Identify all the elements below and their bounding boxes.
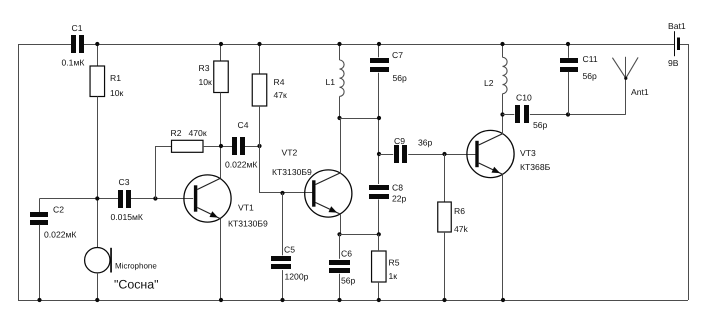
- svg-text:C4: C4: [238, 120, 249, 130]
- svg-text:9В: 9В: [668, 58, 679, 68]
- svg-text:0.022мК: 0.022мК: [44, 230, 76, 240]
- svg-text:R5: R5: [389, 258, 400, 268]
- svg-text:56p: 56p: [533, 120, 548, 130]
- svg-text:C7: C7: [392, 50, 403, 60]
- svg-text:Ant1: Ant1: [631, 87, 649, 97]
- svg-text:47k: 47k: [454, 224, 469, 234]
- svg-text:47к: 47к: [274, 90, 288, 100]
- svg-text:56p: 56p: [393, 73, 408, 83]
- svg-text:R1: R1: [110, 73, 121, 83]
- svg-text:VT1: VT1: [238, 203, 254, 213]
- svg-text:Bat1: Bat1: [668, 21, 686, 31]
- svg-text:C6: C6: [341, 249, 352, 259]
- svg-text:C3: C3: [119, 177, 130, 187]
- svg-text:"Сосна": "Сосна": [114, 278, 159, 292]
- svg-text:C1: C1: [72, 23, 83, 33]
- svg-text:C9: C9: [394, 136, 405, 146]
- svg-text:0.015мК: 0.015мК: [111, 212, 143, 222]
- svg-text:C2: C2: [53, 205, 64, 215]
- svg-text:C8: C8: [392, 183, 403, 193]
- svg-text:56p: 56p: [583, 71, 598, 81]
- svg-text:56p: 56p: [341, 276, 356, 286]
- svg-text:Microphone: Microphone: [115, 262, 157, 271]
- svg-text:C5: C5: [284, 245, 295, 255]
- svg-text:10к: 10к: [110, 88, 124, 98]
- svg-text:L2: L2: [484, 78, 494, 88]
- svg-text:R4: R4: [274, 77, 285, 87]
- svg-text:22p: 22p: [392, 194, 407, 204]
- svg-text:C10: C10: [516, 93, 532, 103]
- svg-text:36p: 36p: [418, 138, 433, 148]
- svg-text:L1: L1: [326, 77, 336, 87]
- svg-text:КТ3130Б9: КТ3130Б9: [228, 219, 268, 229]
- svg-text:1200p: 1200p: [285, 272, 309, 282]
- svg-text:0.022мК: 0.022мК: [225, 160, 257, 170]
- svg-text:R3: R3: [199, 63, 210, 73]
- svg-text:470к: 470к: [189, 128, 207, 138]
- svg-text:C11: C11: [583, 54, 598, 64]
- svg-text:КТ368Б: КТ368Б: [520, 162, 551, 172]
- svg-text:КТ3130Б9: КТ3130Б9: [272, 167, 312, 177]
- svg-text:10к: 10к: [199, 77, 213, 87]
- svg-text:1к: 1к: [389, 271, 398, 281]
- svg-text:VT2: VT2: [282, 148, 298, 158]
- svg-text:VT3: VT3: [520, 148, 536, 158]
- svg-text:R2: R2: [171, 128, 182, 138]
- svg-text:0.1мК: 0.1мК: [62, 58, 85, 68]
- svg-text:R6: R6: [454, 206, 465, 216]
